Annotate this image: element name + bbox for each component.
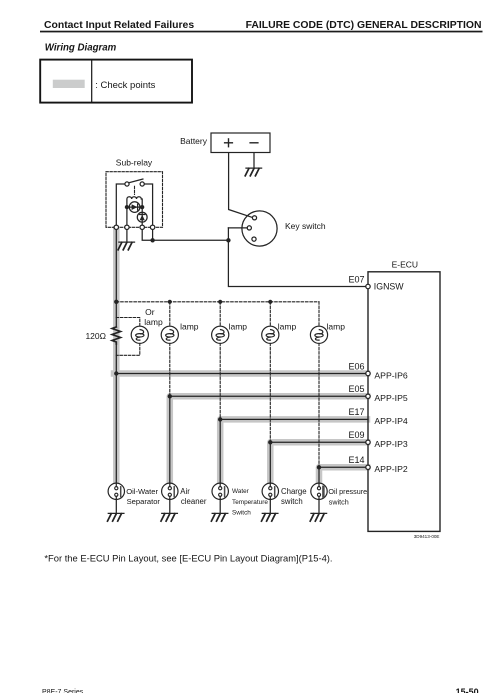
svg-text:switch: switch [329,497,349,506]
wire: E05 junction down to air cleaner [169,396,171,483]
relay contact terminal (right) [140,182,144,186]
svg-text:APP-IP5: APP-IP5 [374,393,407,403]
check-point gray band: E14 wire and drop to oil pressure switch [319,467,367,483]
dashed drop: lamp 4 [269,302,271,327]
node: bus tap lamp 4 [268,300,272,304]
sensor S5 oil pressure switch [311,483,327,499]
svg-text:*For the E-ECU Pin Layout, see: *For the E-ECU Pin Layout, see [E-ECU Pi… [44,553,332,564]
wire: feed junction down to IGNSW (E07) [228,240,365,286]
node: bus tap lamp 3 [218,300,222,304]
wire: T3 down and right [142,230,152,241]
key switch pin 2 [247,226,251,230]
check-point gray band: E09 wire and drop to charge switch [270,442,367,483]
relay coil [127,197,142,207]
node E05 [168,394,172,398]
svg-text:Separator: Separator [127,497,161,506]
dashed lamp bus [116,301,319,303]
pin E06 [366,371,370,375]
svg-text:E06: E06 [348,361,364,371]
diode D1 wire across coil [127,206,142,208]
lamp L1 (Or lamp) [131,326,148,343]
dashed drop: lamp 5 [318,302,320,327]
svg-text:switch: switch [281,497,303,506]
pin E09 [366,440,370,444]
diode D2 (arrow up) [137,212,147,222]
wire: S1 to ground [115,499,117,513]
pin E05 [366,394,370,398]
diode D1 (flyback, arrow right) [129,202,140,213]
lamp L5 [310,326,327,343]
wire E14: junction to E-ECU [319,466,366,468]
wire: relay junction to key switch junction [153,239,229,241]
wire: E17 junction down to water temperature switch [219,419,221,483]
wire: coil left line to T2 [126,207,128,225]
ground (battery) [245,168,261,176]
svg-text:Air: Air [180,487,190,496]
svg-text:E09: E09 [348,430,364,440]
svg-text:FAILURE CODE (DTC) GENERAL DES: FAILURE CODE (DTC) GENERAL DESCRIPTION [246,20,482,31]
dashed drop: lamp 3 [219,302,221,327]
battery B1 [211,133,270,153]
svg-text:120Ω: 120Ω [85,331,106,341]
svg-text:lamp: lamp [144,317,163,327]
svg-text:APP-IP4: APP-IP4 [374,416,407,426]
node: relay output junction [150,238,154,242]
svg-text:E17: E17 [348,407,364,417]
key switch pin 3 [252,237,256,241]
legend divider [91,60,93,103]
svg-text:E07: E07 [348,274,364,284]
svg-text:E14: E14 [348,455,364,465]
node E06 [114,371,118,375]
svg-text:lamp: lamp [278,321,297,331]
dashed actuator link [134,186,136,194]
node: key switch feed junction [226,238,230,242]
svg-text:lamp: lamp [327,321,346,331]
node: coil left / D1 [125,205,129,209]
svg-text:Sub-relay: Sub-relay [116,157,153,167]
wire: right contact to T4 [144,184,152,225]
wire: left contact to T1 [116,184,125,225]
node: coil right / D1 [140,205,144,209]
wire: E14 junction down to oil pressure switch [318,467,320,483]
check-point gray band: E17 wire and drop to water temperature switch [220,419,367,483]
wire: S5 to ground [318,499,320,513]
svg-text:: Check points: : Check points [95,80,155,91]
E-ECU box U1 [368,272,440,532]
wire E17: junction to E-ECU [220,418,368,420]
battery - terminal mark [250,142,258,144]
lamp L2 [161,326,178,343]
ground (S2) [161,513,177,521]
svg-text:Key switch: Key switch [285,221,326,231]
check-point gray band: E06 wire [114,370,367,377]
sensor S3 water temperature switch [212,483,228,499]
relay terminal T2 [125,225,129,229]
sensor S2 air cleaner [162,483,178,499]
key switch pin 1 [252,216,256,220]
legend check-point swatch [53,80,85,88]
wire: coil right line through diode D2 to T3 [141,207,143,225]
svg-text:Or: Or [145,307,155,317]
wire E09: junction to E-ECU [270,441,366,443]
svg-text:Water: Water [232,488,250,495]
svg-text:P8E-7 Series: P8E-7 Series [42,689,84,693]
pin E07 [366,284,370,288]
check-point gray band: sub-relay T1 down main line to oil-water separator [113,230,120,484]
dashed drop: lamp 2 [169,302,171,327]
svg-text:E05: E05 [348,384,364,394]
svg-text:APP-IP3: APP-IP3 [374,439,407,449]
svg-text:APP-IP6: APP-IP6 [374,370,407,380]
svg-text:IGNSW: IGNSW [374,282,405,292]
svg-text:15-50: 15-50 [456,687,479,693]
ground (S4) [262,513,278,521]
sub-relay K1 dashed enclosure [106,172,163,228]
node: bus tap lamp 2 [168,300,172,304]
relay terminal T3 [140,225,144,229]
resistor R1 120ohm [112,327,120,344]
svg-text:Switch: Switch [232,509,251,516]
relay terminal T1 [114,225,118,229]
wire: key switch pin 2 to feed junction [228,227,247,229]
relay contact terminal (left) [125,182,129,186]
wire: battery + to key switch pin 1 [229,153,253,218]
svg-text:lamp: lamp [229,321,248,331]
node: lamp bus tap on main line [114,300,118,304]
relay terminal T4 [150,225,154,229]
wire: S3 to ground [219,499,221,513]
wire E06: main line to E-ECU [116,373,365,375]
ground (S3) [211,513,227,521]
wire: battery - to ground [253,153,255,168]
sensor S1 oil-water separator [108,483,124,499]
svg-text:E-ECU: E-ECU [392,260,418,270]
wire E05: junction to E-ECU [170,395,366,397]
wire: E09 junction down to charge switch [269,442,271,483]
legend box [40,60,192,103]
header rule [40,31,483,33]
wire: S2 to ground [169,499,171,513]
svg-text:Oil pressure: Oil pressure [328,487,367,496]
lamp L3 [212,326,229,343]
node E17 [218,417,222,421]
key switch SW1 [242,211,277,246]
dashed branch: Or lamp parallel to resistor [116,318,140,327]
main check wire (solid) sub-relay T1 down to separator, resistor gap [115,230,117,327]
pin E14 [366,465,370,469]
check-point gray band: E05 wire and drop to air cleaner [170,396,367,483]
ground (S1) [108,513,124,521]
svg-text:Contact Input Related Failures: Contact Input Related Failures [44,20,194,31]
svg-text:Temperature: Temperature [232,499,268,506]
svg-text:lamp: lamp [180,321,199,331]
ground (S5) [310,513,326,521]
svg-text:3D9413-00E: 3D9413-00E [414,534,440,539]
ground (sub-relay) [118,242,134,250]
battery + terminal mark [225,139,233,147]
wire: T4 down [152,230,154,241]
lamp L4 [262,326,279,343]
svg-text:Wiring Diagram: Wiring Diagram [45,43,117,54]
svg-text:Charge: Charge [281,487,307,496]
wire: S4 to ground [269,499,271,513]
svg-text:cleaner: cleaner [181,497,207,506]
sensor S4 charge switch [262,483,278,499]
node E09 [268,440,272,444]
node E14 [317,465,321,469]
relay contact blade [129,179,143,183]
wire: T2 to ground [126,230,128,242]
svg-text:Battery: Battery [180,136,208,146]
svg-text:APP-IP2: APP-IP2 [374,464,407,474]
svg-text:Oil-Water: Oil-Water [126,487,158,496]
